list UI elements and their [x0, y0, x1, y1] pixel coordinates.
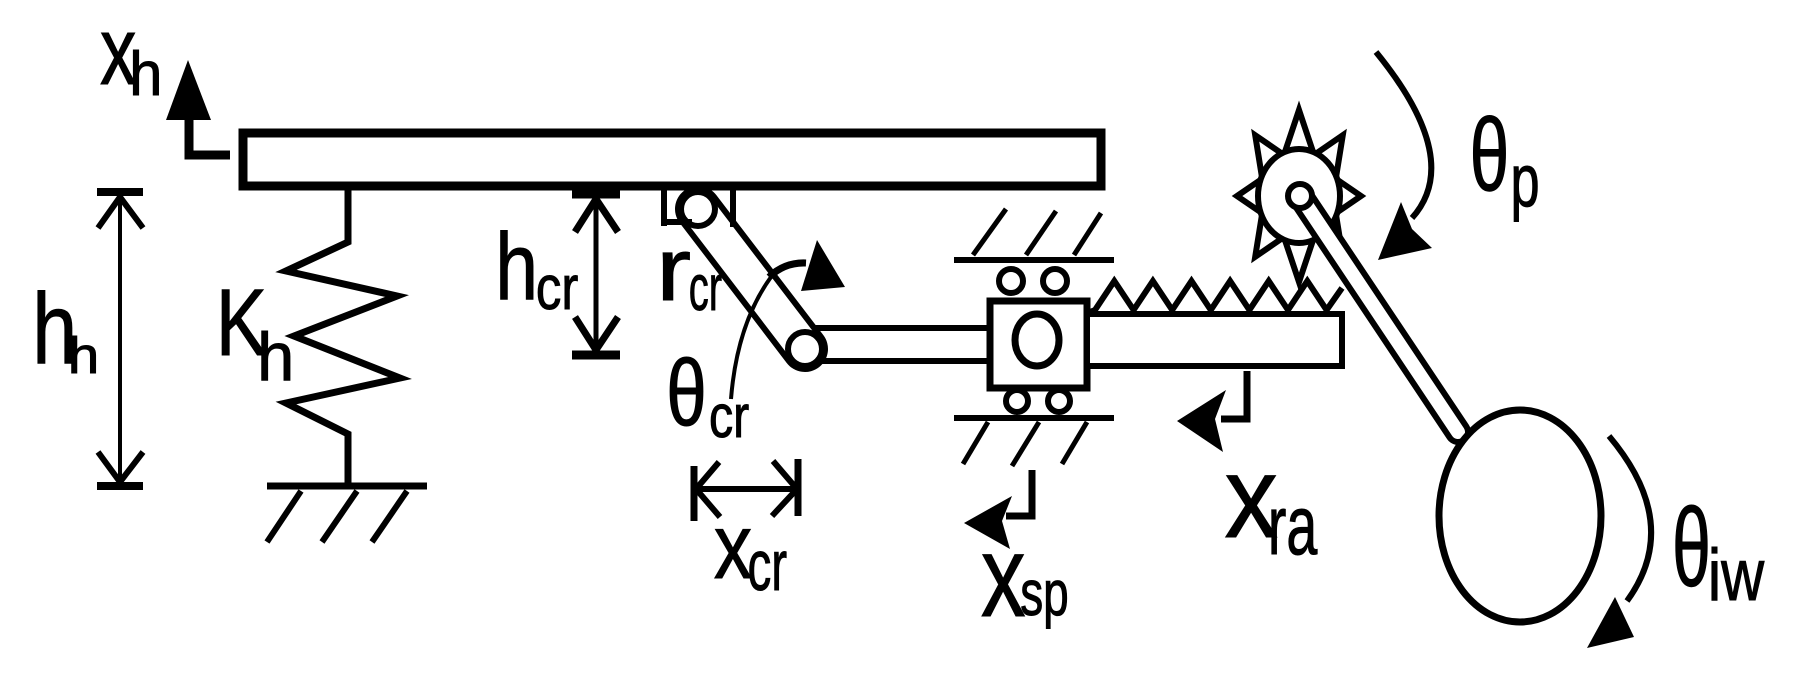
dimension h_cr bottom arrowhead — [575, 317, 618, 350]
ground hatch 2 — [322, 491, 357, 542]
svg-text:ra: ra — [1268, 479, 1318, 572]
ground hatch 1 — [267, 491, 301, 542]
label x_ra leader — [1221, 371, 1247, 419]
svg-text:p: p — [1511, 139, 1540, 222]
svg-text:x: x — [981, 511, 1026, 641]
lower guide hatch 3 — [1062, 422, 1087, 464]
spring K_h — [286, 184, 400, 486]
x_sp arrowhead — [964, 496, 1012, 549]
lower guide hatch 2 — [1012, 422, 1039, 466]
slider pin hole — [1015, 314, 1059, 366]
roller bottom-left — [1006, 390, 1028, 412]
dimension h_cr bottom tick — [572, 351, 620, 360]
rack teeth — [1090, 281, 1342, 312]
theta_p arc — [1376, 52, 1431, 218]
svg-text:cr: cr — [709, 383, 749, 450]
dimension h_h bottom tick — [97, 482, 143, 490]
x_h axis arrow stem — [189, 116, 230, 155]
dimension h_h top arrowhead — [98, 197, 143, 228]
theta_iw arrowhead — [1587, 597, 1634, 648]
roller top-left — [999, 269, 1023, 293]
dimension h_cr top arrowhead — [575, 199, 618, 232]
dimension x_cr left bar — [691, 466, 698, 521]
dimension x_cr left arrowhead — [696, 462, 720, 517]
svg-text:cr: cr — [748, 525, 788, 605]
svg-text:cr: cr — [689, 252, 722, 324]
pinion gear spikes — [1237, 110, 1361, 282]
lower slider guide — [954, 415, 1114, 421]
crank rotation arc — [769, 263, 806, 277]
label x_sp leader — [1006, 470, 1032, 516]
svg-text:iw: iw — [1708, 535, 1765, 616]
crank top pin — [681, 192, 715, 226]
connecting rod crank-to-slider — [806, 325, 1005, 364]
svg-text:h: h — [68, 327, 99, 384]
beam (head mass platform) — [243, 133, 1101, 186]
crank link r_cr — [698, 209, 805, 349]
rack body — [1087, 314, 1342, 366]
svg-text:θ: θ — [1470, 97, 1510, 212]
lower guide hatch 1 — [963, 422, 988, 464]
crank rotation arrowhead — [801, 240, 845, 291]
svg-text:h: h — [257, 319, 294, 395]
x_ra arrowhead — [1177, 390, 1226, 452]
theta_iw arc — [1609, 436, 1651, 601]
dimension h_h top tick — [97, 188, 143, 196]
pinion gear body — [1258, 149, 1340, 243]
slider block — [990, 301, 1087, 388]
dimension h_cr line — [594, 197, 599, 352]
upper guide hatch 3 — [1074, 213, 1101, 255]
flywheel — [1439, 410, 1601, 622]
theta_p arrowhead — [1378, 202, 1432, 260]
svg-text:r: r — [656, 219, 691, 319]
dimension x_cr right bar — [795, 459, 802, 516]
ground hatch 3 — [372, 491, 407, 542]
x_h axis arrow head — [166, 60, 211, 120]
crank bottom pin — [788, 332, 822, 366]
svg-text:cr: cr — [536, 254, 578, 323]
ground line under spring — [267, 483, 427, 490]
dimension h_cr top tick — [572, 190, 620, 199]
svg-text:h: h — [129, 39, 162, 108]
pinion pin — [1288, 184, 1312, 208]
dimension h_h bottom arrowhead — [98, 452, 143, 482]
clevis bracket on beam — [661, 184, 733, 227]
theta_cr leader curve — [731, 277, 771, 399]
svg-text:h: h — [495, 215, 538, 320]
dimension x_cr line — [696, 486, 797, 492]
upper guide hatch 2 — [1026, 211, 1056, 255]
svg-text:sp: sp — [1020, 558, 1069, 629]
dimension h_h line — [118, 195, 122, 483]
pitman rod gear-to-flywheel — [1301, 197, 1458, 432]
svg-text:x: x — [714, 494, 752, 597]
upper guide hatch 1 — [973, 209, 1006, 255]
dimension x_cr right arrowhead — [772, 461, 797, 516]
roller bottom-right — [1048, 390, 1070, 412]
svg-text:θ: θ — [1672, 485, 1711, 610]
svg-text:θ: θ — [666, 340, 707, 445]
upper slider guide — [954, 257, 1114, 263]
roller top-right — [1043, 269, 1067, 293]
